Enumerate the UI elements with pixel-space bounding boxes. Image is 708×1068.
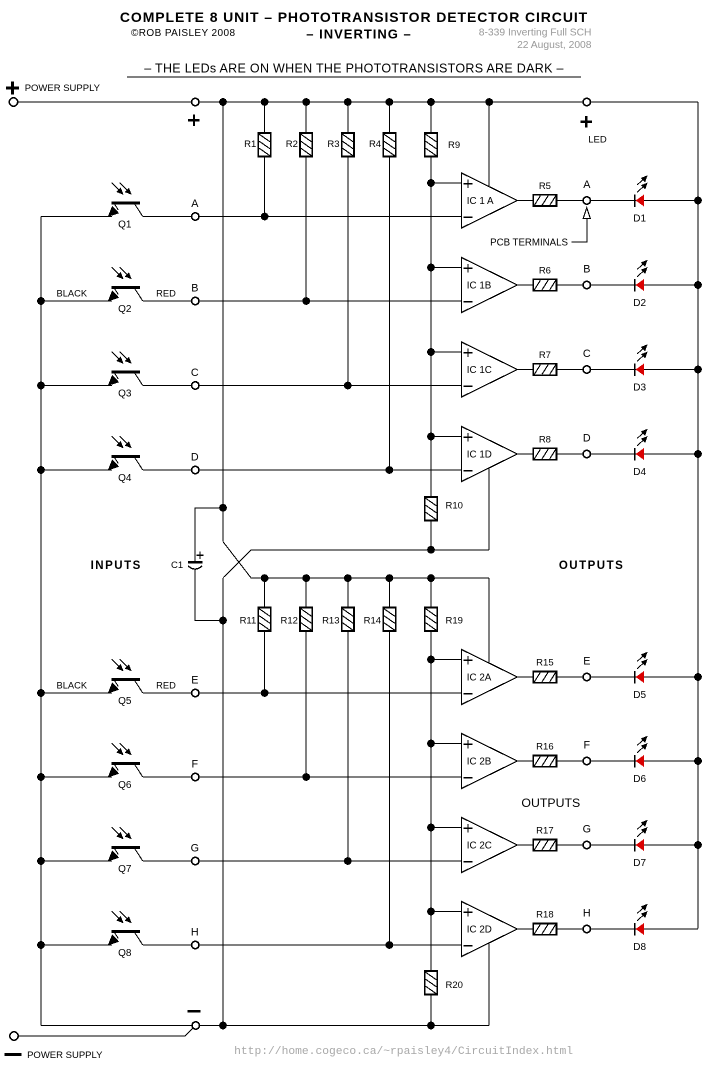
PCB terminals arrowhead — [583, 208, 590, 219]
junction lower bus — [261, 574, 269, 582]
svg-text:D2: D2 — [633, 298, 646, 309]
wire R14 column — [388, 578, 390, 607]
wire to bottom-left supply terminal — [18, 1028, 193, 1036]
junction R3 / input row — [344, 382, 352, 390]
wire input row C to - input — [143, 385, 462, 387]
svg-text:G: G — [191, 842, 199, 854]
junction LED rail — [694, 281, 702, 289]
junction bottom rail / ground column — [219, 1022, 227, 1030]
svg-text:A: A — [583, 179, 591, 191]
wire input row G to - input — [143, 860, 462, 862]
svg-text:R13: R13 — [322, 616, 339, 627]
svg-text:IC 2B: IC 2B — [467, 756, 492, 767]
svg-text:Q7: Q7 — [118, 864, 132, 875]
svg-text:Q6: Q6 — [118, 780, 132, 791]
wire left emitter rail — [40, 217, 42, 1026]
terminal output A — [583, 197, 590, 204]
wire output IC 2C to LED row — [517, 844, 698, 846]
wire C1 bottom branch — [195, 569, 223, 621]
terminal + power supply (top left) — [9, 98, 17, 106]
junction top rail — [344, 98, 352, 106]
resistor R18 — [533, 923, 556, 934]
wire ground column lower — [222, 578, 224, 1026]
resistor R7 — [533, 364, 556, 375]
LED D4 — [635, 429, 648, 461]
wire output IC 1D to LED row — [517, 453, 698, 455]
junction reference rail / + input — [427, 740, 435, 748]
svg-text:IC 2D: IC 2D — [467, 924, 492, 935]
junction reference rail / + input — [427, 348, 435, 356]
svg-text:Q2: Q2 — [118, 304, 132, 315]
+ marker below power terminal — [188, 119, 199, 121]
svg-text:R14: R14 — [364, 616, 381, 627]
wire + input IC 2B — [431, 743, 462, 745]
wire input row F to - input — [143, 776, 462, 778]
wire input row H to - input — [143, 944, 462, 946]
svg-text:R18: R18 — [536, 909, 553, 920]
terminal input G — [192, 857, 199, 864]
svg-text:H: H — [191, 926, 199, 938]
svg-text:IC 1B: IC 1B — [467, 280, 492, 291]
svg-text:– THE LEDs ARE ON WHEN THE PHO: – THE LEDs ARE ON WHEN THE PHOTOTRANSIST… — [144, 62, 564, 76]
svg-text:IC 1 A: IC 1 A — [467, 196, 494, 207]
junction left rail — [37, 941, 45, 949]
wire R2 column — [305, 102, 307, 133]
svg-text:RED: RED — [156, 681, 176, 691]
svg-text:G: G — [583, 824, 591, 836]
power supply - symbol (bottom left) — [5, 1053, 22, 1056]
- marker above bottom terminal — [188, 1010, 201, 1013]
junction lower bus — [302, 574, 310, 582]
junction R2 / input row — [302, 297, 310, 305]
svg-text:OUTPUTS: OUTPUTS — [521, 796, 580, 810]
phototransistor Q8 — [108, 911, 143, 945]
phototransistor Q1 — [108, 183, 143, 217]
wire R11 column — [264, 578, 266, 607]
op-amp IC 2C — [462, 818, 518, 873]
terminal input E — [192, 689, 199, 696]
junction LED rail — [694, 757, 702, 765]
svg-text:F: F — [192, 758, 199, 770]
junction LED rail — [694, 450, 702, 458]
phototransistor Q5 — [108, 659, 143, 693]
svg-text:B: B — [191, 282, 198, 294]
wire + input IC 1 A — [431, 182, 462, 184]
resistor R14 — [383, 608, 395, 632]
junction LED rail — [694, 841, 702, 849]
svg-text:LED: LED — [588, 134, 607, 145]
resistor R12 — [300, 608, 312, 632]
wire IC2A V+ power stub — [488, 578, 490, 663]
svg-text:Q4: Q4 — [118, 473, 132, 484]
svg-text:A: A — [191, 198, 199, 210]
junction bottom rail / R20 — [427, 1022, 435, 1030]
resistor R11 — [258, 608, 270, 632]
power supply + symbol (top left) — [6, 87, 19, 90]
wire input row D left — [41, 469, 112, 471]
svg-text:Q1: Q1 — [118, 219, 132, 230]
wire + input IC 1B — [431, 267, 462, 269]
wire input row C left — [41, 385, 112, 387]
svg-text:OUTPUTS: OUTPUTS — [559, 560, 624, 572]
junction left rail — [37, 773, 45, 781]
svg-text:R11: R11 — [240, 616, 257, 627]
resistor R20 — [425, 971, 437, 995]
wire input row E left — [41, 692, 112, 694]
svg-text:POWER SUPPLY: POWER SUPPLY — [27, 1050, 103, 1061]
svg-text:IC 1D: IC 1D — [467, 449, 492, 460]
wire input row D to - input — [143, 469, 462, 471]
svg-text:D3: D3 — [633, 383, 646, 394]
svg-text:D: D — [191, 451, 199, 463]
wire input row A to - input — [143, 216, 462, 218]
LED D6 — [635, 736, 648, 768]
resistor R15 — [533, 671, 556, 682]
svg-text:R19: R19 — [446, 616, 463, 627]
resistor R8 — [533, 448, 556, 459]
svg-text:R15: R15 — [536, 657, 553, 668]
svg-text:R1: R1 — [244, 139, 256, 150]
op-amp IC 1D — [462, 427, 518, 482]
wire ground line from R10 — [251, 549, 489, 551]
svg-text:D: D — [583, 433, 591, 445]
svg-text:C: C — [583, 348, 591, 360]
svg-text:D4: D4 — [633, 467, 646, 478]
junction reference rail / + input — [427, 824, 435, 832]
svg-text:R12: R12 — [280, 616, 297, 627]
junction R13 / input row — [344, 857, 352, 865]
wire output IC 1C to LED row — [517, 369, 698, 371]
junction reference rail / + input — [427, 908, 435, 916]
svg-text:D6: D6 — [633, 774, 646, 785]
svg-text:D1: D1 — [633, 214, 646, 225]
LED D3 — [635, 344, 648, 376]
terminal input D — [192, 466, 199, 473]
wire input row F left — [41, 776, 112, 778]
junction top rail — [427, 98, 435, 106]
terminal output D — [583, 450, 590, 457]
wire input row G left — [41, 860, 112, 862]
wire output IC 2D to LED row — [517, 928, 698, 930]
wire IC1D V- power stub — [488, 468, 490, 550]
svg-text:IC 2A: IC 2A — [467, 672, 492, 683]
svg-text:POWER SUPPLY: POWER SUPPLY — [25, 83, 101, 94]
svg-text:INPUTS: INPUTS — [91, 560, 142, 572]
terminal output B — [583, 281, 590, 288]
junction left rail — [37, 297, 45, 305]
wire R9 column — [430, 102, 432, 133]
wire + input IC 1D — [431, 436, 462, 438]
svg-text:BLACK: BLACK — [57, 681, 88, 691]
terminal input F — [192, 773, 199, 780]
op-amp IC 2A — [462, 650, 518, 705]
svg-text:D8: D8 — [633, 942, 646, 953]
wire IC2D V- power stub — [488, 943, 490, 1026]
svg-text:Q5: Q5 — [118, 696, 132, 707]
wire R4 column — [388, 102, 390, 133]
wire + input IC 1C — [431, 351, 462, 353]
op-amp IC 1B — [462, 258, 518, 313]
LED D7 — [635, 820, 648, 852]
junction top rail — [219, 98, 227, 106]
wire output IC 2B to LED row — [517, 760, 698, 762]
LED D2 — [635, 260, 648, 292]
op-amp IC 2D — [462, 902, 518, 957]
svg-text:R4: R4 — [369, 139, 381, 150]
phototransistor Q7 — [108, 827, 143, 861]
wire input row A left — [41, 216, 112, 218]
terminal output C — [583, 366, 590, 373]
wire IC1A V+ power stub — [488, 102, 490, 187]
svg-text:R3: R3 — [327, 139, 339, 150]
wire C1 top branch — [195, 508, 223, 561]
resistor R5 — [533, 195, 556, 206]
phototransistor Q6 — [108, 743, 143, 777]
svg-text:Q3: Q3 — [118, 388, 132, 399]
terminal input C — [192, 382, 199, 389]
svg-text:IC 1C: IC 1C — [467, 365, 492, 376]
svg-text:D7: D7 — [633, 858, 646, 869]
svg-text:R16: R16 — [536, 741, 553, 752]
junction ground line / R10 — [427, 546, 435, 554]
junction LED rail — [694, 366, 702, 374]
svg-text:R10: R10 — [446, 501, 463, 512]
svg-text:COMPLETE 8 UNIT – PHOTOTRANSIS: COMPLETE 8 UNIT – PHOTOTRANSISTOR DETECT… — [120, 9, 588, 25]
junction R12 / input row — [302, 773, 310, 781]
resistor R1 — [258, 133, 270, 157]
svg-text:http://home.cogeco.ca/~rpaisle: http://home.cogeco.ca/~rpaisley4/Circuit… — [234, 1046, 573, 1058]
terminal - power PCB terminal (bottom) — [192, 1022, 199, 1029]
wire R10 bottom lead — [430, 521, 432, 550]
junction C1 top / V+ column — [219, 504, 227, 512]
wire output IC 2A to LED row — [517, 676, 698, 678]
wire crossover diagonal V+ to bus — [223, 542, 251, 578]
resistor R16 — [533, 755, 556, 766]
terminal input H — [192, 941, 199, 948]
wire input row B to - input — [143, 300, 462, 302]
wire + input IC 2D — [431, 911, 462, 913]
junction reference rail / + input — [427, 179, 435, 187]
wire top V+ rail — [18, 101, 698, 103]
junction C1 bottom / ground column — [219, 617, 227, 625]
terminal output H — [583, 925, 590, 932]
resistor R13 — [342, 608, 354, 632]
phototransistor Q4 — [108, 436, 143, 470]
LED D1 — [635, 175, 648, 207]
svg-text:PCB TERMINALS: PCB TERMINALS — [490, 238, 568, 249]
wire + input IC 2A — [431, 659, 462, 661]
svg-text:R5: R5 — [539, 181, 551, 192]
svg-text:F: F — [584, 740, 591, 752]
terminal output E — [583, 673, 590, 680]
wire + input IC 2C — [431, 827, 462, 829]
resistor R6 — [533, 279, 556, 290]
wire R13 column — [347, 578, 349, 607]
junction left rail — [37, 382, 45, 390]
resistor R17 — [533, 839, 556, 850]
node + power PCB terminal — [192, 98, 199, 105]
svg-text:C1: C1 — [171, 560, 183, 571]
op-amp IC 1C — [462, 342, 518, 397]
junction reference rail / + input — [427, 264, 435, 272]
junction LED rail — [694, 197, 702, 205]
junction left rail — [37, 466, 45, 474]
svg-text:D5: D5 — [633, 690, 646, 701]
wire input row B left — [41, 300, 112, 302]
wire bottom ground rail — [41, 1025, 489, 1027]
terminal output F — [583, 757, 590, 764]
wire lower V+ bus — [251, 577, 489, 579]
svg-text:Q8: Q8 — [118, 948, 132, 959]
svg-text:R7: R7 — [539, 350, 551, 361]
junction R14 / input row — [386, 941, 394, 949]
resistor R3 — [342, 133, 354, 157]
terminal input A — [192, 213, 199, 220]
wire V+ column upper — [222, 102, 224, 542]
wire input row H left — [41, 944, 112, 946]
junction LED rail — [694, 673, 702, 681]
resistor R2 — [300, 133, 312, 157]
svg-text:E: E — [583, 656, 590, 668]
svg-text:R6: R6 — [539, 265, 551, 276]
junction left rail — [37, 689, 45, 697]
phototransistor Q3 — [108, 352, 143, 386]
svg-text:B: B — [583, 264, 590, 276]
wire R1 column — [264, 102, 266, 133]
wire output IC 1B to LED row — [517, 284, 698, 286]
wire R19 column — [430, 578, 432, 607]
svg-text:– INVERTING –: – INVERTING – — [306, 27, 411, 42]
wire R12 column — [305, 578, 307, 607]
svg-text:H: H — [583, 908, 591, 920]
LED D5 — [635, 652, 648, 684]
junction reference rail / + input — [427, 433, 435, 441]
resistor R9 — [425, 133, 437, 157]
junction top rail — [302, 98, 310, 106]
junction top rail — [386, 98, 394, 106]
terminal output G — [583, 841, 590, 848]
svg-text:R17: R17 — [536, 825, 553, 836]
terminal - power supply (bottom left) — [10, 1032, 18, 1040]
wire input row E to - input — [143, 692, 462, 694]
junction lower bus — [344, 574, 352, 582]
resistor R4 — [383, 133, 395, 157]
PCB terminals pointer line — [572, 219, 587, 243]
phototransistor Q2 — [108, 267, 143, 301]
svg-text:E: E — [191, 674, 198, 686]
terminal LED + supply — [583, 98, 590, 105]
junction reference rail / + input — [427, 656, 435, 664]
svg-text:©ROB PAISLEY 2008: ©ROB PAISLEY 2008 — [131, 28, 235, 39]
terminal input B — [192, 297, 199, 304]
svg-text:8-339 Inverting Full SCH: 8-339 Inverting Full SCH — [479, 28, 592, 39]
wire R20 bottom lead — [430, 995, 432, 1026]
svg-text:RED: RED — [156, 289, 176, 299]
LED D8 — [635, 904, 648, 936]
svg-text:BLACK: BLACK — [57, 289, 88, 299]
wire crossover diagonal ground to column — [223, 550, 251, 578]
svg-text:22 August, 2008: 22 August, 2008 — [517, 40, 592, 51]
junction left rail — [37, 857, 45, 865]
junction top rail — [485, 98, 493, 106]
wire right LED rail — [697, 102, 699, 928]
junction R1 / input row — [261, 213, 269, 221]
wire R3 column — [347, 102, 349, 133]
junction R4 / input row — [386, 466, 394, 474]
wire output IC 1 A to LED row — [517, 200, 698, 202]
junction top rail — [261, 98, 269, 106]
op-amp IC 1 A — [462, 173, 518, 228]
capacitor C1 — [188, 552, 204, 570]
svg-text:R2: R2 — [286, 139, 298, 150]
svg-text:IC 2C: IC 2C — [467, 840, 492, 851]
junction lower bus — [427, 574, 435, 582]
op-amp IC 2B — [462, 734, 518, 789]
svg-text:R8: R8 — [539, 434, 551, 445]
resistor R19 — [425, 608, 437, 632]
+ marker below LED terminal — [581, 121, 592, 123]
junction lower bus — [386, 574, 394, 582]
resistor R10 — [425, 497, 437, 521]
svg-text:C: C — [191, 367, 199, 379]
junction R11 / input row — [261, 689, 269, 697]
svg-text:R20: R20 — [446, 980, 463, 991]
svg-text:R9: R9 — [448, 140, 460, 151]
